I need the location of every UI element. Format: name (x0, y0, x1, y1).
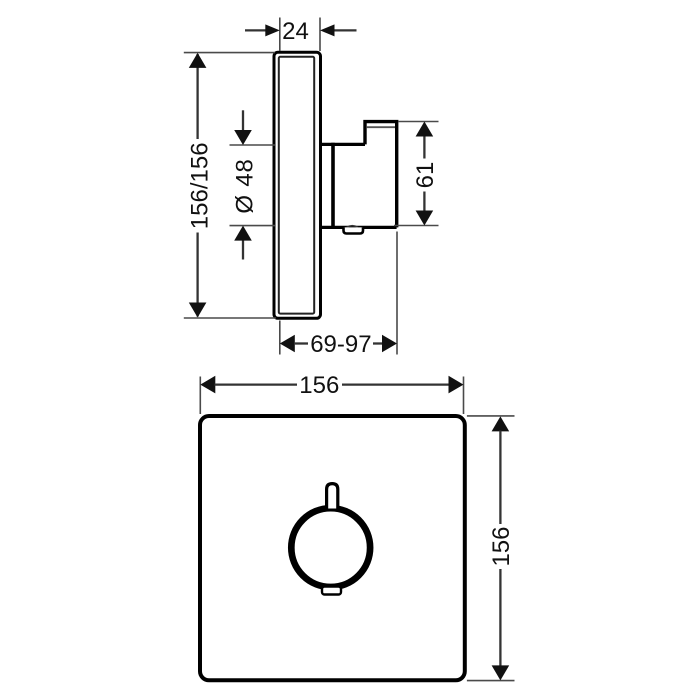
dimension 69-97: left arrow (280, 335, 295, 353)
side view: knob inner line (367, 126, 395, 128)
side view: bottom tab (344, 227, 364, 233)
dimension 24: left extension line (279, 18, 281, 52)
dimension 156 horizontal: left line segment (215, 383, 298, 385)
dimension 61: bottom extension line (394, 225, 439, 227)
side view: valve body top edge (321, 143, 366, 146)
side view: knob outline (left, top) and shared right edge of body (365, 122, 397, 228)
dimension 61: dimension line upper segment (423, 136, 425, 159)
dimension 61: bottom arrow (416, 211, 434, 226)
svg-text:61: 61 (412, 162, 439, 189)
side view: face plate outer outline (274, 52, 321, 318)
dimension 156 vertical: dimension line upper segment (499, 431, 501, 525)
svg-text:24: 24 (282, 18, 309, 45)
dimension 156 vertical: bottom extension line (467, 680, 515, 682)
svg-text:156/156: 156/156 (187, 142, 214, 229)
dimension 156 horizontal: right extension line (463, 377, 465, 415)
dimension 156 horizontal: left arrow (200, 376, 215, 394)
front view: bottom index notch (322, 587, 341, 595)
dimension 69-97: right line segment (373, 342, 383, 344)
dimension 156 horizontal: right arrow (449, 376, 464, 394)
dimension 24: right leader line (335, 29, 357, 31)
dimension D48: upper leader line (242, 110, 244, 131)
dimension D48: bottom tick line (230, 225, 276, 227)
dimension 24: right arrow (320, 24, 335, 36)
side view: valve body bottom edge (321, 226, 397, 229)
svg-text:156: 156 (299, 372, 339, 399)
svg-text:69-97: 69-97 (310, 331, 371, 358)
dimension 69-97: right extension line (396, 232, 398, 355)
dimension 156 vertical: top arrow (492, 416, 510, 431)
dimension 156 horizontal: left extension line (199, 377, 201, 415)
dimension D48: lower arrow (pointing up) (234, 226, 252, 241)
dimension 61: top arrow (416, 122, 434, 137)
dimension 156 vertical: top extension line (467, 415, 515, 417)
front view: square escutcheon plate (200, 416, 465, 680)
dimension 69-97: right arrow (382, 335, 397, 353)
dimension 156/156: top arrow (189, 53, 207, 68)
dimension 24: left leader line (245, 29, 266, 31)
svg-text:Ø 48: Ø 48 (232, 158, 259, 213)
dimension 24: left arrow (265, 24, 280, 36)
side view: valve body left flange (331, 143, 335, 229)
dimension 156 vertical: dimension line lower segment (499, 569, 501, 667)
dimension 156/156: top extension line (184, 52, 275, 54)
dimension 156/156: dimension line lower segment (196, 233, 198, 317)
dimension 69-97: left line segment (294, 342, 308, 344)
dimension 156/156: dimension line upper segment (196, 54, 198, 139)
dimension D48: upper arrow (pointing down) (234, 130, 252, 145)
dimension 156 horizontal: right line segment (342, 383, 449, 385)
side view: bottom clip arc (347, 226, 359, 228)
dimension 156 vertical: bottom arrow (492, 665, 510, 680)
dimension 61: top extension line (398, 121, 439, 123)
front view: handle ring (291, 508, 370, 587)
dimension 156/156: bottom arrow (189, 303, 207, 318)
front view: handle stub pin (327, 484, 338, 509)
dimension 156/156: bottom extension line (184, 317, 276, 319)
svg-text:156: 156 (488, 526, 515, 566)
dimension 69-97: left extension line (279, 321, 281, 355)
dimension 24: right extension line (319, 18, 321, 52)
side view: face plate inner line (279, 57, 314, 314)
dimension D48: lower leader line (242, 240, 244, 260)
dimension 61: dimension line lower segment (423, 192, 425, 212)
dimension D48: top tick line (230, 144, 276, 146)
